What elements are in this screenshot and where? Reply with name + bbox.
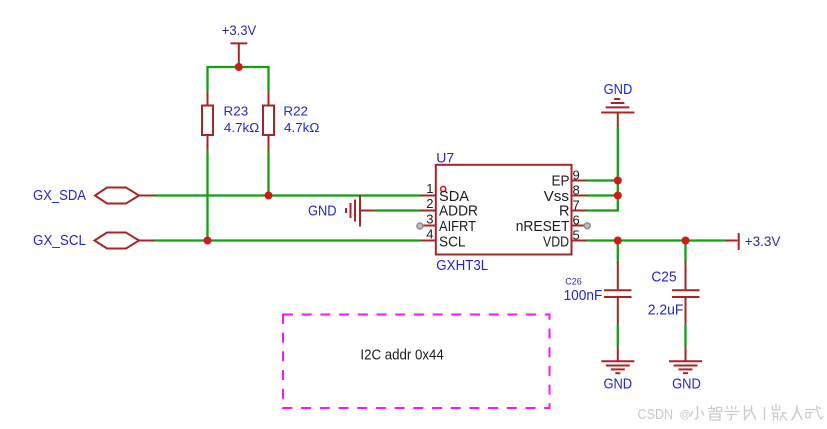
junction Vss [614, 192, 622, 200]
wire C25 to GND [684, 325, 686, 347]
wire EP to GND net [587, 179, 618, 181]
junction VDD/C26 [614, 237, 622, 245]
wire R22 down to SDA net [267, 151, 269, 196]
wire SCL from port [139, 240, 155, 242]
svg-text:nRESET: nRESET [516, 219, 570, 235]
wire VDD to +3.3V right [587, 239, 725, 241]
svg-text:R22: R22 [283, 103, 308, 118]
ground symbol C26 [601, 361, 634, 373]
wire GND to ADDR pin [360, 210, 374, 212]
wire VDD to C26 [617, 241, 619, 264]
wire C26 to GND [617, 325, 619, 347]
svg-text:C25: C25 [651, 269, 676, 286]
watermark CJK 长 [745, 406, 756, 420]
junction +3.3V rail [235, 63, 243, 71]
pin 2 stub (ADDR) [421, 210, 436, 212]
wire rail to R22 [267, 66, 269, 91]
pin 3 stub (AIFRT) [423, 225, 436, 227]
svg-text:GX_SCL: GX_SCL [33, 233, 86, 249]
watermark CJK 嵌 [772, 405, 787, 421]
svg-text:Vss: Vss [544, 189, 569, 205]
svg-text:8: 8 [573, 183, 580, 198]
watermark CSDN [638, 406, 691, 423]
wire rail to R23 [206, 66, 208, 91]
watermark separator [764, 407, 766, 420]
resistor R22 [263, 91, 274, 151]
wire Vss to GND net [587, 194, 618, 196]
capacitor C25 [672, 262, 700, 325]
pin 6 stub (nRESET) [572, 225, 585, 227]
pin 8 stub (Vss) [572, 195, 587, 197]
svg-text:2.2uF: 2.2uF [648, 301, 684, 318]
svg-text:U7: U7 [436, 149, 454, 165]
svg-text:4: 4 [426, 227, 433, 242]
svg-text:VDD: VDD [543, 234, 569, 250]
svg-text:4.7kΩ: 4.7kΩ [284, 120, 320, 135]
pin 7 stub (R) [572, 210, 587, 212]
svg-text:R: R [559, 204, 569, 220]
port GX_SCL hexagon [95, 233, 140, 249]
svg-text:100nF: 100nF [564, 287, 603, 304]
junction R23/SCL [204, 237, 212, 245]
wire VDD to C25 [684, 241, 686, 264]
wire SDA from port [139, 195, 155, 197]
resistor R23 [202, 91, 213, 151]
svg-text:9: 9 [573, 168, 580, 183]
watermark CJK 小 [691, 407, 704, 420]
svg-text:5: 5 [573, 228, 580, 243]
port GX_SDA hexagon [95, 188, 139, 204]
pin 4 stub (SCL) [421, 240, 436, 242]
pin 1 stub (SDA) [421, 195, 436, 197]
wire GND vertical [617, 127, 619, 212]
pin 5 stub (VDD) [572, 240, 587, 242]
wire SDA net [155, 194, 421, 196]
svg-text:GX_SDA: GX_SDA [33, 188, 86, 204]
wire R to GND net [587, 209, 618, 211]
ground symbol top (inverted) [601, 99, 634, 127]
svg-text:SCL: SCL [439, 234, 466, 250]
svg-text:GND: GND [672, 376, 701, 393]
svg-text:+3.3V: +3.3V [222, 22, 257, 38]
watermark CJK 式 [806, 406, 824, 419]
junction R22/SDA [265, 192, 273, 200]
junction EP [614, 177, 622, 185]
svg-text:7: 7 [573, 198, 580, 213]
watermark CJK 入 [792, 406, 802, 420]
power +3.3V right bar symbol [738, 233, 740, 250]
svg-text:GND: GND [603, 376, 632, 393]
svg-text:R23: R23 [224, 103, 249, 118]
svg-text:GND: GND [604, 81, 633, 98]
svg-text:AIFRT: AIFRT [439, 219, 476, 235]
svg-text:I2C addr 0x44: I2C addr 0x44 [360, 348, 443, 364]
svg-text:GND: GND [308, 204, 337, 220]
svg-text:3: 3 [426, 212, 433, 227]
svg-text:1: 1 [426, 181, 433, 196]
svg-text:GXHT3L: GXHT3L [436, 257, 488, 274]
annotation box I2C addr [283, 315, 550, 409]
svg-text:+3.3V: +3.3V [745, 233, 781, 249]
svg-text:EP: EP [552, 174, 570, 190]
no-connect circle pin 3 [417, 223, 423, 229]
wire stub from +3.3V to rail [238, 62, 240, 67]
pin 9 stub (EP) [572, 180, 587, 182]
pin-1 indicator circle [441, 186, 446, 191]
IC U7 body [436, 165, 572, 255]
wire SCL net [155, 239, 421, 241]
capacitor C26 [604, 262, 632, 325]
wire R23 down to SCL net [206, 151, 208, 241]
watermark CJK 智 [709, 406, 722, 420]
svg-text:2: 2 [426, 196, 433, 211]
watermark CJK 学 [725, 406, 739, 420]
ground symbol (ADDR, pointing left) [346, 195, 360, 227]
svg-text:6: 6 [573, 213, 580, 228]
wire top rail [208, 66, 269, 68]
power +3.3V top bar symbol [231, 43, 248, 62]
svg-text:SDA: SDA [439, 189, 469, 205]
svg-text:CSDN: CSDN [638, 406, 674, 423]
junction VDD/C25 [682, 237, 690, 245]
ground symbol C25 [669, 361, 702, 373]
svg-text:@: @ [680, 409, 691, 421]
svg-text:4.7kΩ: 4.7kΩ [224, 120, 260, 135]
no-connect circle pin 6 [584, 223, 590, 229]
svg-text:ADDR: ADDR [439, 204, 478, 220]
